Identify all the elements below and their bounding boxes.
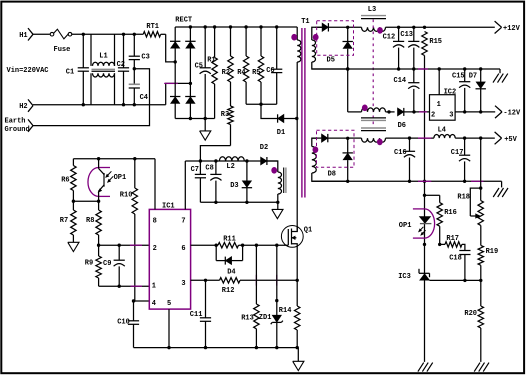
- resistor R19: [478, 225, 498, 280]
- svg-text:Q1: Q1: [304, 227, 312, 235]
- svg-text:C6: C6: [266, 67, 274, 75]
- bridge rail top: [175, 26, 297, 28]
- node: [82, 33, 85, 107]
- node: [423, 194, 426, 197]
- regulator IC2: [430, 69, 457, 120]
- diode D5a: [316, 23, 362, 31]
- wire fb row: [97, 244, 149, 247]
- resistor R5: [252, 25, 264, 104]
- T1 primary winding: [297, 27, 301, 232]
- capacitor C7: [191, 161, 206, 202]
- svg-text:IC2: IC2: [444, 88, 457, 96]
- capacitor C13: [400, 27, 419, 69]
- bridge rail bottom: [175, 117, 214, 120]
- resistor R20: [464, 280, 483, 362]
- purple mark pin1: [131, 285, 143, 287]
- resistor R1: [207, 25, 217, 118]
- transformer T1 label: [301, 18, 309, 26]
- svg-text:C5: C5: [195, 63, 203, 71]
- ground (primary): [293, 348, 304, 371]
- svg-text:D6: D6: [398, 122, 406, 130]
- svg-text:Vin=220VAC: Vin=220VAC: [7, 67, 49, 75]
- resistor R11: [218, 236, 288, 248]
- wire: [33, 33, 50, 35]
- svg-text:C13: C13: [400, 31, 413, 39]
- D8 dashed box: [317, 130, 355, 178]
- wire AC2 drop: [166, 83, 191, 104]
- capacitor C12: [383, 27, 405, 69]
- wire R3 to vcc node: [200, 146, 230, 161]
- output -12V: [495, 106, 521, 118]
- svg-text:R1: R1: [207, 56, 215, 64]
- node: [133, 103, 136, 106]
- capacitor C8: [205, 161, 221, 202]
- svg-text:OP1: OP1: [114, 174, 127, 182]
- purple junction mark: [418, 68, 428, 70]
- svg-text:C2: C2: [117, 61, 125, 69]
- svg-text:L2: L2: [226, 163, 234, 171]
- svg-text:C9: C9: [103, 260, 111, 268]
- svg-text:4: 4: [152, 300, 156, 308]
- svg-text:RECT: RECT: [175, 16, 192, 24]
- ground (rail top): [493, 69, 508, 83]
- svg-text:D4: D4: [227, 269, 235, 277]
- capacitor C17: [451, 138, 470, 181]
- L3 winding 3: [348, 128, 434, 145]
- T1 secondary 1 winding: [312, 27, 348, 69]
- svg-text:R20: R20: [464, 310, 477, 318]
- svg-text:C14: C14: [394, 77, 407, 85]
- wire left vcc rail: [73, 157, 155, 160]
- resistor R15: [422, 32, 442, 56]
- capacitor C10: [117, 301, 139, 348]
- wire pin8: [154, 159, 156, 210]
- svg-text:7: 7: [181, 218, 185, 226]
- capacitor C1: [66, 34, 89, 104]
- output +5V: [495, 132, 518, 144]
- diode D2: [260, 144, 278, 172]
- capacitor C15: [452, 69, 470, 112]
- svg-text:H2: H2: [19, 103, 27, 111]
- svg-text:C7: C7: [191, 166, 199, 174]
- diode D8a: [312, 134, 350, 142]
- svg-text:+5V: +5V: [504, 136, 517, 144]
- svg-text:C4: C4: [140, 94, 148, 102]
- svg-text:-12V: -12V: [503, 109, 521, 117]
- wire -12V common rail: [312, 67, 500, 70]
- purple junction marks: [418, 180, 483, 182]
- T1 aux winding: [271, 167, 286, 209]
- node: [189, 25, 192, 85]
- svg-text:C16: C16: [394, 149, 407, 157]
- capacitor C14: [394, 69, 420, 112]
- rectifier right leg: [185, 27, 195, 119]
- svg-text:R18: R18: [457, 193, 470, 201]
- svg-text:1: 1: [152, 283, 156, 291]
- svg-text:R11: R11: [223, 236, 236, 244]
- svg-text:R6: R6: [61, 177, 69, 185]
- svg-text:C18: C18: [449, 255, 462, 263]
- svg-text:R3: R3: [221, 111, 229, 119]
- svg-text:1: 1: [437, 101, 441, 109]
- svg-text:IC1: IC1: [162, 203, 175, 211]
- node: [346, 67, 349, 70]
- wire H1 rail: [72, 33, 166, 35]
- capacitor C5: [195, 25, 211, 118]
- svg-text:L3: L3: [368, 6, 376, 14]
- ground bus (secondary): [424, 56, 426, 362]
- wire: [72, 200, 101, 203]
- purple junction mark: [418, 137, 431, 139]
- wire primary bottom rail: [134, 346, 299, 349]
- diode D6: [398, 108, 430, 130]
- svg-text:Ground: Ground: [5, 126, 30, 134]
- svg-text:C12: C12: [383, 33, 396, 41]
- choke L1: [91, 34, 115, 104]
- wire +12V rail: [386, 26, 495, 29]
- controller IC1: [149, 203, 190, 309]
- resistor R8: [86, 201, 101, 245]
- svg-text:H1: H1: [19, 32, 27, 40]
- optocoupler OP1 (transistor side): [88, 159, 126, 202]
- svg-text:C1: C1: [66, 68, 74, 76]
- resistor R3: [221, 106, 233, 146]
- node: [133, 33, 136, 71]
- ground (IC3 bus): [418, 363, 433, 372]
- wire H2 rail: [33, 104, 166, 106]
- svg-text:Earth: Earth: [5, 118, 26, 126]
- svg-text:D5: D5: [327, 57, 335, 65]
- connector H2: [19, 99, 33, 111]
- svg-text:5: 5: [167, 300, 171, 308]
- T1 core: [302, 28, 305, 198]
- wire vcc row: [185, 159, 277, 162]
- purple junction mark: [419, 111, 427, 113]
- svg-text:C3: C3: [141, 53, 149, 61]
- rheostat R18: [457, 138, 483, 225]
- T1 primary phase dot: [291, 34, 297, 41]
- wire pin6 row: [191, 244, 218, 247]
- node AC1: [174, 60, 177, 63]
- svg-text:R2: R2: [222, 69, 230, 77]
- label Vin=220VAC: [7, 67, 49, 75]
- svg-text:8: 8: [153, 218, 157, 226]
- resistor R7: [60, 201, 76, 242]
- svg-text:RT1: RT1: [146, 23, 159, 31]
- resistor R10: [120, 159, 138, 302]
- capacitor C3: [129, 34, 150, 68]
- purple mark pin2: [130, 244, 142, 246]
- wire pin4 row: [132, 299, 150, 302]
- node: [423, 243, 442, 246]
- ground (sec rail): [493, 181, 508, 197]
- svg-text:R8: R8: [86, 217, 94, 225]
- svg-text:C10: C10: [117, 318, 130, 326]
- inductor L2: [219, 157, 244, 171]
- svg-text:R13: R13: [241, 314, 254, 322]
- svg-text:R4: R4: [237, 69, 245, 77]
- svg-text:D8: D8: [328, 170, 336, 178]
- svg-text:C8: C8: [205, 164, 213, 172]
- node: [122, 33, 125, 107]
- diode D7: [469, 69, 486, 112]
- output +12V: [495, 21, 521, 33]
- purple crossing marks: [256, 275, 276, 286]
- svg-text:2: 2: [431, 111, 435, 119]
- wire snubber return: [246, 103, 277, 106]
- ground (bridge): [200, 119, 211, 141]
- thermistor RT1: [143, 23, 161, 37]
- svg-text:R9: R9: [85, 259, 93, 267]
- svg-text:D7: D7: [469, 73, 477, 81]
- svg-text:IC3: IC3: [398, 273, 411, 281]
- svg-text:C11: C11: [190, 311, 203, 319]
- wire earth: [33, 69, 150, 126]
- svg-text:T1: T1: [301, 18, 309, 26]
- rectifier left leg: [170, 27, 180, 119]
- resistor R17: [440, 235, 465, 250]
- ground (R7): [68, 242, 79, 251]
- diode D3: [230, 161, 252, 202]
- node: [408, 136, 411, 139]
- svg-text:R14: R14: [279, 307, 292, 315]
- svg-text:3: 3: [449, 111, 453, 119]
- svg-text:ZD1: ZD1: [259, 314, 272, 322]
- resistor R13: [241, 245, 259, 347]
- svg-text:R10: R10: [120, 191, 133, 199]
- fuse F1: [50, 29, 72, 54]
- capacitor C11: [190, 280, 211, 347]
- svg-text:R19: R19: [486, 248, 499, 256]
- capacitor C16: [394, 138, 415, 181]
- svg-text:R12: R12: [222, 287, 235, 295]
- svg-text:R17: R17: [446, 235, 459, 243]
- T1 secondary 1 phase dot: [313, 34, 319, 41]
- shunt regulator IC3: [398, 269, 429, 281]
- svg-text:D2: D2: [260, 144, 268, 152]
- wire aux return row: [200, 201, 279, 204]
- wire pin1 row: [99, 285, 150, 288]
- svg-text:L1: L1: [99, 53, 107, 61]
- wire -12V out: [455, 110, 495, 113]
- capacitor C18: [449, 251, 470, 281]
- svg-text:OP1: OP1: [399, 222, 412, 230]
- resistor R16: [425, 195, 457, 244]
- svg-text:2: 2: [153, 245, 157, 253]
- resistor R12: [220, 278, 299, 296]
- svg-text:D1: D1: [277, 129, 285, 137]
- optocoupler OP1 (LED side): [399, 209, 435, 238]
- svg-text:+12V: +12V: [503, 25, 521, 33]
- ground (aux): [272, 209, 283, 218]
- wire pin3 row: [191, 279, 220, 282]
- svg-text:3: 3: [181, 280, 185, 288]
- diode D1: [277, 114, 299, 137]
- capacitor C6: [266, 25, 282, 104]
- diode D4: [216, 245, 242, 276]
- capacitor C9: [103, 245, 125, 286]
- zener ZD1: [259, 245, 283, 347]
- svg-text:R16: R16: [444, 209, 457, 217]
- svg-text:R15: R15: [429, 38, 442, 46]
- capacitor C4: [129, 69, 148, 105]
- resistor R9: [85, 245, 102, 286]
- wire pin7: [184, 161, 186, 209]
- resistor R14: [279, 248, 300, 348]
- svg-text:L4: L4: [438, 126, 446, 134]
- resistor R4: [237, 25, 249, 104]
- capacitor C2: [117, 34, 130, 104]
- svg-text:D3: D3: [230, 182, 238, 190]
- L3 winding 2: [348, 105, 395, 121]
- diode D5b: [343, 27, 353, 112]
- resistor R2: [222, 25, 234, 106]
- label RECT: [175, 16, 192, 24]
- svg-text:C15: C15: [452, 73, 465, 81]
- svg-text:R5: R5: [252, 69, 260, 77]
- wire pin5: [168, 309, 170, 348]
- wire AC1 drop: [166, 34, 176, 62]
- svg-text:6: 6: [181, 245, 185, 253]
- inductor L4: [434, 126, 495, 139]
- T1 secondary 2 winding: [312, 138, 348, 181]
- svg-text:Fuse: Fuse: [54, 46, 71, 54]
- D5 dashed box: [317, 21, 354, 65]
- inductor L3 winding 1: [361, 6, 386, 34]
- connector H1: [19, 28, 33, 40]
- wire ref row: [430, 279, 483, 282]
- L3 coupling dash line: [372, 20, 374, 128]
- wire AC2 purple overdraw: [164, 82, 178, 84]
- diode D8b: [343, 138, 353, 181]
- mosfet Q1: [281, 226, 312, 248]
- ground (R20): [474, 363, 489, 372]
- resistor R6: [61, 159, 76, 202]
- wire to D1: [261, 104, 278, 118]
- svg-text:C17: C17: [451, 149, 464, 157]
- wire secondary ground rail: [312, 180, 502, 183]
- connector Earth Ground: [5, 118, 34, 135]
- T1 secondary 2 phase dot: [313, 146, 319, 153]
- svg-text:R7: R7: [60, 217, 68, 225]
